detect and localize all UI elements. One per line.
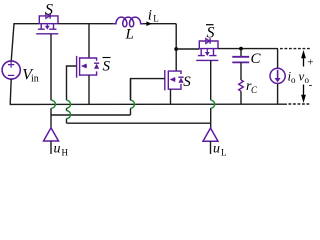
wire: V_in bottom to bottom rail corner <box>10 79 11 104</box>
wire: bus C from V2 to V4 (S-bar drive bus) <box>67 122 211 124</box>
wire: i_o branch vertical <box>277 49 279 104</box>
v_o dimension arrow lower <box>303 85 305 97</box>
wire: dashed top rail extension <box>280 48 310 50</box>
svg-text:L: L <box>153 13 159 23</box>
wire: node A to S-bar right drain <box>176 48 199 50</box>
wire: V4 from S-bar right gate down to u_L <box>210 108 212 128</box>
svg-text:+: + <box>307 57 313 69</box>
wire: top rail from left corner to S drain <box>11 24 39 61</box>
current source i_o <box>270 68 285 83</box>
hop: gate wire V1 over bottom rail <box>51 100 55 108</box>
resistor r_C (zigzag) <box>239 80 244 91</box>
transistor S-bar (top-right, horizontal MOSFET with body diode) <box>196 38 218 60</box>
capacitor C <box>232 57 249 63</box>
wire: S right source to bottom rail <box>170 89 172 104</box>
transistor S (right leg, vertical MOSFET with body diode) <box>165 70 184 90</box>
wire: r_C to bottom rail <box>240 91 242 104</box>
wire: u_L bottom lead <box>210 141 212 154</box>
svg-text:S: S <box>45 2 53 19</box>
wire: C branch from junction to capacitor <box>240 49 242 57</box>
wire: S-bar left gate lead <box>67 66 77 100</box>
voltage source V_in <box>2 61 20 79</box>
wire: S drain top vertical (S-bar left leg drain from top rail) <box>88 24 90 58</box>
hop: gate wire V2 over bottom rail <box>67 100 71 108</box>
wire: node A vertical (inductor node down to S right drain) <box>175 24 177 71</box>
svg-text:S: S <box>103 59 111 75</box>
svg-text:in: in <box>31 74 39 85</box>
wire: V3 vertical from bus B up to S right gate <box>130 79 132 115</box>
svg-text:L: L <box>221 148 227 158</box>
wire: S-bar right source to output node <box>218 48 278 50</box>
wire: bus B from V1 to V3 (u_H drive bus) <box>51 114 131 116</box>
junction node A dot <box>174 47 178 51</box>
wire: dashed bottom rail extension <box>289 103 311 105</box>
hop: V2 over bus B <box>67 111 71 119</box>
svg-text:C: C <box>251 85 258 95</box>
wire: u_H bottom lead <box>50 141 52 154</box>
wire: bottom rail (power return) <box>10 103 287 105</box>
wire: S source to inductor <box>58 23 114 25</box>
inductor L <box>114 17 143 27</box>
junction dot at C branch <box>239 47 243 51</box>
wire: capacitor to resistor r_C <box>240 62 242 80</box>
wire: S-bar top-right gate lead down <box>210 60 212 100</box>
wire: S-bar left source to bottom rail <box>88 75 90 104</box>
v_o dimension arrow upper <box>303 57 305 67</box>
wire: V2 gate of S-bar left down to bus C (hops rail and bus B) <box>66 108 68 123</box>
transistor S (top-left, horizontal MOSFET with body diode) <box>36 13 58 34</box>
svg-text:u: u <box>54 142 61 157</box>
transistor S-bar (left leg, vertical MOSFET with body diode) <box>77 56 100 78</box>
hop: gate wire V4 over bottom rail <box>211 100 215 108</box>
svg-text:-: - <box>309 79 313 91</box>
svg-text:S: S <box>207 25 215 42</box>
svg-text:o: o <box>291 75 296 85</box>
gate drive source u_L (triangle) <box>203 128 218 141</box>
wire: inductor to node A with current arrow <box>143 23 176 25</box>
svg-text:L: L <box>125 27 134 43</box>
wire: V1 gate of S down to u_H (hops rail) <box>50 34 52 128</box>
wire: S right gate lead <box>131 79 165 101</box>
current arrow i_L <box>146 21 152 26</box>
svg-text:C: C <box>251 51 262 67</box>
gate drive source u_H (triangle) <box>44 128 59 141</box>
hop: gate wire V3 over bottom rail <box>131 100 135 108</box>
svg-text:u: u <box>213 142 220 157</box>
svg-text:H: H <box>62 148 69 158</box>
svg-text:i: i <box>148 8 152 24</box>
svg-text:S: S <box>183 74 191 90</box>
